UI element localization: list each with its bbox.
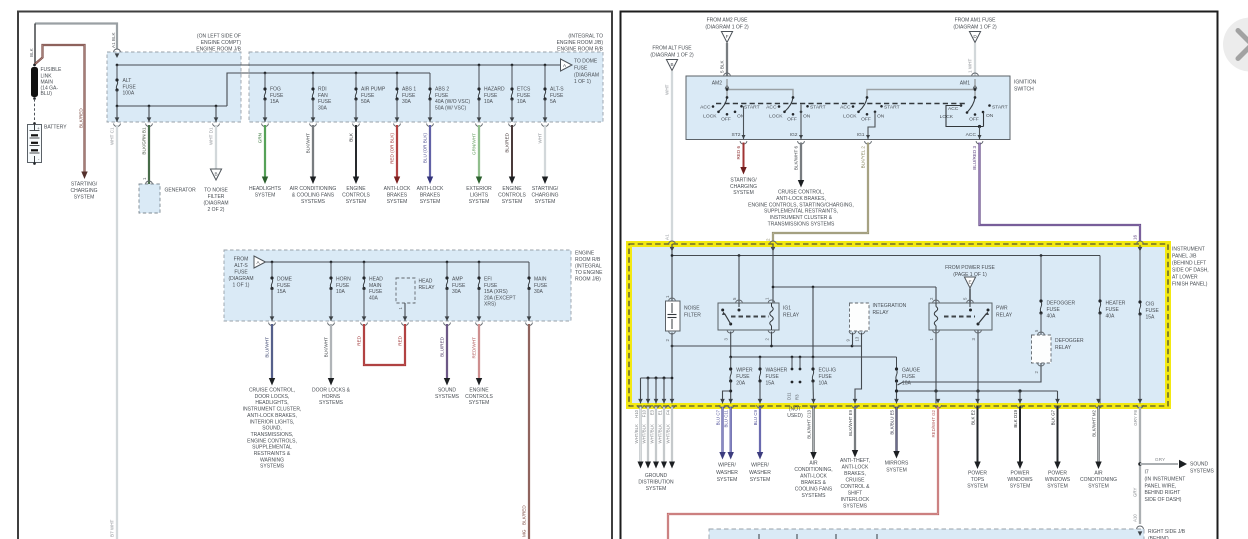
- wire RED/WHT lower: [478, 324, 480, 381]
- switch unit IG2: [785, 98, 794, 112]
- svg-text:WHT D1: WHT D1: [209, 127, 214, 145]
- wire WHT 1 from D: [974, 43, 976, 76]
- output ACC: [979, 127, 981, 140]
- svg-text:FUSE: FUSE: [484, 283, 498, 289]
- next-page chevron control: [1223, 18, 1248, 72]
- svg-text:GRN/WHT: GRN/WHT: [472, 133, 477, 155]
- svg-text:WHT/BLK: WHT/BLK: [634, 424, 639, 444]
- svg-text:BLU C11: BLU C11: [724, 409, 729, 427]
- svg-text:WASHER: WASHER: [766, 368, 788, 374]
- svg-text:RELAY: RELAY: [1055, 345, 1072, 351]
- fuse HORN lower: [330, 261, 333, 264]
- svg-text:RED: RED: [357, 335, 362, 345]
- svg-text:USED): USED): [787, 413, 803, 419]
- svg-text:40A (W/O VSC): 40A (W/O VSC): [435, 99, 470, 105]
- svg-text:SYSTEM: SYSTEM: [255, 192, 276, 198]
- svg-text:1 OF 1): 1 OF 1): [233, 283, 250, 289]
- connector ign out 979.5: [976, 141, 983, 144]
- fuse ECU-IG: [812, 357, 814, 369]
- svg-text:FUSE: FUSE: [517, 93, 531, 99]
- svg-text:HEAD: HEAD: [369, 277, 383, 283]
- bus lower box: [266, 261, 530, 263]
- svg-text:SOUND,: SOUND,: [262, 426, 281, 432]
- svg-text:WASHER: WASHER: [716, 470, 738, 476]
- svg-text:WARNING: WARNING: [260, 457, 284, 463]
- arrow EXTERIOR: [476, 177, 482, 185]
- svg-text:DEFOGGER: DEFOGGER: [1055, 338, 1084, 344]
- wire GRY F8: [1139, 407, 1141, 525]
- svg-text:SUPPLEMENTAL RESTRAINTS,: SUPPLEMENTAL RESTRAINTS,: [764, 209, 838, 215]
- svg-text:STARTING/: STARTING/: [730, 178, 757, 184]
- wire BLU C9: [759, 407, 761, 453]
- wire BLK E2: [977, 407, 979, 465]
- svg-text:16: 16: [1133, 234, 1138, 240]
- wire BLK G7: [1057, 407, 1059, 465]
- svg-text:15A: 15A: [270, 99, 280, 105]
- svg-text:PWR: PWR: [996, 306, 1008, 312]
- svg-text:GAUGE: GAUGE: [902, 368, 921, 374]
- svg-text:(NOT: (NOT: [789, 407, 801, 413]
- connector C11: [728, 399, 733, 404]
- svg-text:RELAY: RELAY: [873, 310, 890, 316]
- svg-text:BLK G7: BLK G7: [1051, 409, 1056, 425]
- wire BLK/WHT: [312, 125, 314, 177]
- svg-text:HORN: HORN: [336, 277, 351, 283]
- wire WHT D1 to noise filter: [215, 125, 217, 170]
- integration relay pin wires: [852, 333, 854, 347]
- fuse ALT 100A: [116, 65, 118, 80]
- svg-text:CRUISE CONTROL,: CRUISE CONTROL,: [778, 190, 824, 196]
- svg-text:40A: 40A: [1047, 314, 1057, 320]
- svg-text:SYSTEMS: SYSTEMS: [843, 504, 868, 510]
- box ENGINE ROOM R/B lower: [224, 250, 571, 321]
- svg-text:BLK/WHT 6: BLK/WHT 6: [794, 146, 799, 171]
- wire BLK/RED: [511, 125, 513, 177]
- wire BLK to fusible link: [34, 24, 36, 66]
- fuse ETCS: [511, 65, 513, 89]
- svg-text:B7 WHT: B7 WHT: [110, 519, 115, 537]
- svg-text:15A: 15A: [766, 381, 776, 387]
- triangle D: [969, 32, 980, 43]
- box instrument panel J/B highlighted: [629, 244, 1168, 406]
- svg-text:(INTEGRAL: (INTEGRAL: [575, 264, 602, 270]
- svg-text:20A (EXCEPT: 20A (EXCEPT: [484, 295, 516, 301]
- svg-text:ALT: ALT: [123, 78, 132, 84]
- fuse AMP lower: [446, 261, 449, 264]
- svg-text:F10: F10: [641, 409, 646, 417]
- triangle A from alt-s: [254, 256, 266, 268]
- switch unit ACC: [967, 98, 975, 113]
- wire BLU/RED 3 acc: [980, 143, 1141, 244]
- svg-text:RESTRAINTS &: RESTRAINTS &: [254, 451, 291, 457]
- wire BLK/WHT E9: [854, 407, 856, 452]
- svg-text:ALT-S: ALT-S: [234, 263, 248, 269]
- svg-text:A1 BLK: A1 BLK: [111, 31, 116, 48]
- wire nf column to comb: [671, 333, 673, 404]
- wire GRN: [264, 125, 266, 177]
- defogger relay feed line: [898, 363, 1042, 385]
- svg-text:BLK/RED: BLK/RED: [522, 505, 527, 525]
- arrow ANTI-LOCK: [394, 177, 400, 185]
- svg-text:LOCK: LOCK: [843, 114, 857, 120]
- generator box: [139, 184, 160, 213]
- svg-text:ACC: ACC: [700, 104, 711, 110]
- svg-text:IG1: IG1: [783, 306, 791, 312]
- svg-text:WIPER/: WIPER/: [751, 463, 769, 469]
- feed lines ignition: [726, 79, 728, 98]
- svg-text:CONDITIONING,: CONDITIONING,: [794, 467, 832, 473]
- svg-text:FUSE: FUSE: [270, 93, 284, 99]
- svg-text:EXTERIOR: EXTERIOR: [466, 186, 492, 192]
- stubs not used D11 R3: [791, 357, 793, 369]
- wire BLU (OR BLK): [429, 125, 431, 177]
- svg-text:SYSTEM: SYSTEM: [733, 190, 754, 196]
- arrow ENGINE: [353, 177, 359, 185]
- svg-text:A1: A1: [665, 234, 670, 240]
- svg-text:DOME: DOME: [277, 277, 293, 283]
- connector AM1: [972, 73, 979, 76]
- switch unit ST2: [719, 98, 728, 112]
- svg-text:ENGINE ROOM J/B: ENGINE ROOM J/B: [196, 47, 241, 53]
- svg-text:AMP: AMP: [452, 277, 464, 283]
- svg-text:CONTROLS: CONTROLS: [465, 394, 493, 400]
- fuse ABS 1: [396, 72, 399, 75]
- svg-text:BLK/WHT: BLK/WHT: [324, 337, 329, 358]
- svg-text:(IN INSTRUMENT: (IN INSTRUMENT: [1145, 476, 1186, 482]
- svg-text:RED (OR BLK): RED (OR BLK): [390, 133, 395, 164]
- svg-text:BEHIND RIGHT: BEHIND RIGHT: [1145, 490, 1181, 496]
- head relay pin wire: [404, 303, 406, 321]
- svg-text:CONTROLS: CONTROLS: [498, 192, 526, 198]
- svg-text:INSTRUMENT CLUSTER,: INSTRUMENT CLUSTER,: [243, 407, 302, 413]
- svg-text:SUPPLEMENTAL: SUPPLEMENTAL: [252, 445, 292, 451]
- wire WHT C1 long left: [116, 125, 118, 539]
- svg-text:TO DOME: TO DOME: [574, 59, 598, 65]
- svg-text:ENGINE ROOM J/B): ENGINE ROOM J/B): [557, 40, 604, 46]
- svg-text:RED: RED: [398, 335, 403, 345]
- svg-text:FUSE: FUSE: [361, 93, 375, 99]
- svg-text:MAIN: MAIN: [369, 283, 382, 289]
- integration relay: [850, 303, 870, 331]
- svg-text:SOUND: SOUND: [1190, 462, 1208, 468]
- fuse DEFOGGER 40A: [1040, 256, 1042, 302]
- wire entry2 to ig1 relay pin1: [772, 244, 774, 303]
- gauge fuse output: [896, 382, 898, 404]
- svg-text:FROM ALT FUSE: FROM ALT FUSE: [652, 46, 692, 52]
- svg-text:BLU C9: BLU C9: [753, 409, 758, 425]
- svg-text:LINK: LINK: [41, 73, 53, 79]
- svg-text:SYSTEM: SYSTEM: [967, 484, 988, 490]
- connector E5: [894, 399, 899, 404]
- ecuig fuse output: [812, 382, 815, 404]
- svg-text:FUSE: FUSE: [1146, 308, 1160, 314]
- svg-text:2: 2: [766, 238, 771, 241]
- svg-text:ACC: ACC: [966, 132, 977, 138]
- wire E to pwr relay: [969, 289, 971, 304]
- svg-text:WHT/BLK: WHT/BLK: [657, 424, 662, 444]
- svg-text:BLK/WHT: BLK/WHT: [306, 133, 311, 154]
- fuse GAUGE: [896, 357, 898, 369]
- svg-text:I7: I7: [1145, 470, 1149, 476]
- connector C13: [811, 399, 816, 404]
- fuse bus2: [731, 356, 897, 358]
- wire ig1 relay contact out to wiper bus: [730, 332, 732, 358]
- connector E1: [662, 399, 667, 404]
- svg-text:HEATER: HEATER: [1106, 301, 1126, 307]
- svg-text:INTERIOR LIGHTS,: INTERIOR LIGHTS,: [250, 419, 295, 425]
- wire riser to bus B: [227, 73, 430, 106]
- svg-text:LOCK: LOCK: [769, 114, 783, 120]
- svg-text:R3: R3: [795, 394, 800, 400]
- svg-text:CHARGING: CHARGING: [730, 184, 757, 190]
- svg-text:2 OF 2): 2 OF 2): [208, 207, 225, 213]
- svg-text:& COOLING FANS: & COOLING FANS: [292, 192, 335, 198]
- svg-text:5 BLK: 5 BLK: [720, 60, 725, 73]
- connector F10: [646, 399, 651, 404]
- svg-text:WHT/BLK: WHT/BLK: [665, 424, 670, 444]
- connector AM2: [724, 73, 731, 76]
- bus lower box1: [117, 105, 227, 107]
- svg-text:50A (W/ VSC): 50A (W/ VSC): [435, 105, 466, 111]
- svg-text:IG2: IG2: [790, 132, 798, 138]
- svg-text:10A: 10A: [336, 289, 346, 295]
- wire BLK/GRN B1 to generator: [148, 125, 150, 184]
- pwr relay dashed link: [944, 316, 975, 318]
- arrow STARTING/: [542, 177, 548, 185]
- svg-text:ENGINE COMPT): ENGINE COMPT): [201, 40, 242, 46]
- svg-text:TRANSMISSIONS SYSTEMS: TRANSMISSIONS SYSTEMS: [768, 222, 835, 228]
- wire BLK/WHT C13: [812, 407, 814, 454]
- svg-text:SHIFT: SHIFT: [848, 491, 862, 497]
- svg-text:AM1: AM1: [960, 81, 971, 87]
- svg-text:FUSE: FUSE: [277, 283, 291, 289]
- wiper fuse outputs: [723, 382, 731, 404]
- svg-text:RELAY: RELAY: [783, 313, 800, 319]
- svg-text:OFF: OFF: [787, 116, 797, 122]
- svg-text:RDI: RDI: [318, 87, 327, 93]
- svg-text:SYSTEM: SYSTEM: [469, 400, 490, 406]
- svg-text:BLU/RED 3: BLU/RED 3: [972, 146, 977, 170]
- wire BLK/RED MG long: [528, 324, 530, 539]
- svg-text:AIR CONDITIONING: AIR CONDITIONING: [290, 186, 337, 192]
- svg-text:HEAD: HEAD: [419, 279, 433, 285]
- svg-text:DISTRIBUTION: DISTRIBUTION: [638, 480, 674, 486]
- svg-text:10A: 10A: [902, 381, 912, 387]
- svg-text:(DIAGRAM 1 OF 2): (DIAGRAM 1 OF 2): [650, 53, 694, 59]
- svg-text:BLK/YEL 2: BLK/YEL 2: [861, 146, 866, 169]
- svg-text:30A: 30A: [452, 289, 462, 295]
- wire BLK D19: [1019, 407, 1021, 465]
- svg-text:FUSE: FUSE: [402, 93, 416, 99]
- svg-text:BLU C7: BLU C7: [716, 409, 721, 425]
- svg-text:BLK/RED: BLK/RED: [79, 108, 84, 128]
- svg-text:30A: 30A: [318, 105, 328, 111]
- svg-text:BRAKES: BRAKES: [387, 192, 408, 198]
- svg-text:FUSE: FUSE: [123, 84, 137, 90]
- pwr relay coil return: [935, 330, 937, 404]
- svg-text:ACC: ACC: [766, 104, 777, 110]
- svg-text:BATTERY: BATTERY: [44, 125, 67, 131]
- pwr relay contact output: [977, 330, 979, 404]
- ig1 relay contact: [738, 303, 740, 307]
- connector D19: [1018, 399, 1023, 404]
- svg-text:TO NOISE: TO NOISE: [204, 188, 228, 194]
- svg-text:SYSTEMS: SYSTEMS: [1190, 468, 1215, 474]
- svg-text:GRN: GRN: [258, 133, 263, 143]
- svg-text:BRAKES &: BRAKES &: [801, 480, 827, 486]
- head relay box: [396, 278, 415, 303]
- svg-text:SYSTEM: SYSTEM: [502, 199, 523, 205]
- svg-text:ENGINE: ENGINE: [469, 388, 489, 394]
- connector G7: [1055, 399, 1060, 404]
- fuse HAZARD: [478, 65, 480, 89]
- svg-text:AIR PUMP: AIR PUMP: [361, 87, 386, 93]
- wires WHT/BLK grounds: [639, 407, 641, 463]
- wire BLK/WHT M2: [1097, 407, 1099, 465]
- svg-text:FUSIBLE: FUSIBLE: [41, 67, 63, 73]
- connector E3: [654, 399, 659, 404]
- triangle E: [964, 277, 975, 288]
- wire BLK 5 from F: [726, 43, 728, 76]
- svg-text:INSTRUMENT: INSTRUMENT: [1172, 247, 1205, 253]
- svg-text:ROOM J/B): ROOM J/B): [575, 277, 601, 283]
- wire battery positive gray bus: [35, 24, 117, 50]
- svg-text:OFF: OFF: [969, 116, 979, 122]
- connector E2: [975, 399, 980, 404]
- triangle B to noise filter: [210, 169, 221, 180]
- ground comb: [641, 377, 673, 379]
- svg-text:WHT C1: WHT C1: [110, 127, 115, 145]
- svg-text:STARTING/: STARTING/: [71, 182, 98, 188]
- svg-text:SWITCH: SWITCH: [1014, 87, 1034, 93]
- defogger relay: [1032, 335, 1052, 363]
- fuse HEAD lower: [363, 261, 366, 264]
- svg-text:ANTI-THEFT,: ANTI-THEFT,: [840, 458, 870, 464]
- switch unit IG1: [859, 98, 868, 112]
- svg-text:SIDE OF DASH,: SIDE OF DASH,: [1172, 268, 1209, 274]
- svg-text:BLK: BLK: [349, 132, 354, 142]
- svg-text:WHT: WHT: [538, 133, 543, 144]
- triangle B2: [666, 60, 677, 71]
- svg-text:ENGINE ROOM R/B: ENGINE ROOM R/B: [557, 47, 604, 53]
- svg-text:SYSTEMS: SYSTEMS: [301, 199, 326, 205]
- svg-text:AIR: AIR: [809, 461, 818, 467]
- svg-text:GRY: GRY: [1133, 487, 1138, 497]
- svg-text:RED 6: RED 6: [736, 146, 741, 160]
- connector entries yellow box: [669, 241, 676, 244]
- svg-text:1 OF 1): 1 OF 1): [574, 79, 591, 85]
- svg-text:DEFOGGER: DEFOGGER: [1047, 301, 1076, 307]
- svg-text:POWER: POWER: [968, 471, 987, 477]
- svg-text:RED/WHT G2: RED/WHT G2: [931, 409, 936, 437]
- svg-text:BLK/BLU E5: BLK/BLU E5: [890, 409, 895, 434]
- svg-text:SYSTEMS: SYSTEMS: [435, 394, 460, 400]
- arrow starting/charging: [81, 172, 87, 180]
- svg-text:AM2: AM2: [712, 81, 723, 87]
- svg-text:FUSE: FUSE: [369, 289, 383, 295]
- wire BLU/WHT lower: [271, 324, 273, 381]
- svg-text:40A: 40A: [1106, 314, 1116, 320]
- svg-text:ON: ON: [877, 113, 885, 119]
- svg-text:SYSTEM: SYSTEM: [1047, 484, 1068, 490]
- acc loop wires: [946, 106, 984, 127]
- svg-text:A10: A10: [1133, 514, 1138, 522]
- svg-text:INTEGRATION: INTEGRATION: [873, 303, 907, 309]
- wire GRN/WHT: [478, 125, 480, 177]
- svg-text:RED/WHT: RED/WHT: [472, 337, 477, 359]
- branch GRY to sound systems: [1140, 463, 1178, 465]
- box ENGINE ROOM J/B: [107, 52, 241, 122]
- right page frame: [621, 12, 1218, 539]
- fuse ALT-S: [544, 65, 546, 89]
- svg-text:HAZARD: HAZARD: [484, 87, 505, 93]
- connector ign out 868: [865, 141, 872, 144]
- arrow ANTI-LOCK: [427, 177, 433, 185]
- svg-text:TRANSMISSIONS,: TRANSMISSIONS,: [251, 432, 294, 438]
- svg-text:ACC: ACC: [840, 104, 851, 110]
- wire BLU/RED lower: [446, 324, 448, 381]
- connector E9: [853, 399, 858, 404]
- svg-text:HEADLIGHTS: HEADLIGHTS: [249, 186, 282, 192]
- svg-text:ANTI-LOCK: ANTI-LOCK: [384, 186, 411, 192]
- svg-text:B: B: [670, 62, 673, 67]
- fuse AIR PUMP: [355, 72, 358, 75]
- svg-text:CHARGING: CHARGING: [532, 192, 559, 198]
- svg-text:+: +: [37, 126, 40, 131]
- box ignition switch: [686, 76, 1010, 140]
- svg-text:ON: ON: [986, 113, 994, 119]
- svg-text:SIDE OF DASH): SIDE OF DASH): [1145, 497, 1182, 503]
- svg-text:FINISH PANEL): FINISH PANEL): [1172, 282, 1208, 288]
- box right side J/B: [709, 529, 1144, 539]
- svg-text:SYSTEMS: SYSTEMS: [802, 493, 827, 499]
- svg-text:GROUND: GROUND: [645, 473, 668, 479]
- svg-text:30A: 30A: [402, 99, 412, 105]
- svg-text:100A: 100A: [123, 91, 135, 97]
- wires down to exits box1: [148, 106, 150, 122]
- svg-text:WIPER/: WIPER/: [718, 463, 736, 469]
- connector exit box1 x=117: [115, 117, 120, 122]
- fuse MAIN lower: [528, 262, 530, 278]
- svg-text:OFF: OFF: [721, 116, 731, 122]
- svg-text:IG1: IG1: [857, 132, 865, 138]
- svg-text:ENGINE: ENGINE: [502, 186, 522, 192]
- svg-text:ECU-IG: ECU-IG: [819, 368, 837, 374]
- svg-text:BLU (OR BLK): BLU (OR BLK): [423, 133, 428, 164]
- ig1 relay: [718, 303, 779, 330]
- svg-text:BLU/RED: BLU/RED: [440, 336, 445, 357]
- noise filter: [666, 301, 681, 331]
- arrow ENGINE: [509, 177, 515, 185]
- svg-text:15A (XRS): 15A (XRS): [484, 289, 508, 295]
- svg-text:FUSE: FUSE: [1047, 307, 1061, 313]
- svg-text:MAIN: MAIN: [534, 277, 547, 283]
- fuse HEATER 40A: [1099, 256, 1101, 301]
- svg-text:SYSTEM: SYSTEM: [1010, 484, 1031, 490]
- wire BLK/RED to starting system: [35, 45, 85, 172]
- wire WHT: [544, 125, 546, 177]
- svg-text:WHT/BLK: WHT/BLK: [641, 424, 646, 444]
- svg-text:WHT: WHT: [665, 84, 670, 95]
- svg-text:BLK/GRN B1: BLK/GRN B1: [142, 127, 147, 155]
- svg-text:ENGINE: ENGINE: [346, 186, 366, 192]
- svg-text:ANTI-LOCK BRAKES,: ANTI-LOCK BRAKES,: [247, 413, 297, 419]
- svg-text:FUSE: FUSE: [435, 93, 449, 99]
- svg-text:SYSTEM: SYSTEM: [646, 486, 667, 492]
- svg-text:ROOM R/B: ROOM R/B: [575, 257, 601, 263]
- arrow AIR CONDITIONING: [310, 177, 316, 185]
- svg-text:CRUISE CONTROL,: CRUISE CONTROL,: [249, 388, 295, 394]
